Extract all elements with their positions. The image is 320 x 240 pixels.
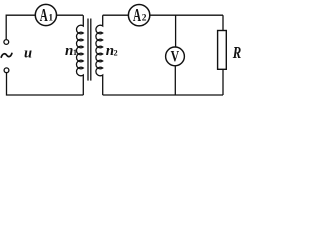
wire right side down to resistor	[222, 15, 224, 30]
wire bottom-left from source to primary	[7, 73, 84, 95]
svg-text:A: A	[133, 5, 141, 25]
wire bottom-right	[103, 94, 223, 96]
resistor R	[218, 31, 227, 70]
terminal upper	[4, 40, 9, 45]
svg-text:1: 1	[73, 48, 77, 57]
wire A2 to right corner	[150, 14, 223, 16]
transformer core line right	[90, 19, 92, 81]
transformer primary coil n1	[77, 15, 84, 95]
svg-text:V: V	[171, 48, 180, 65]
svg-text:2: 2	[142, 14, 147, 24]
svg-text:1: 1	[48, 14, 53, 24]
transformer core line left	[87, 19, 89, 81]
wire resistor to bottom	[222, 69, 224, 95]
ammeter A1	[35, 4, 56, 25]
terminal lower	[4, 68, 9, 73]
svg-text:R: R	[232, 43, 241, 62]
wire top-left from source to A1	[6, 15, 35, 39]
ammeter A2	[128, 5, 149, 26]
voltmeter V	[166, 47, 185, 66]
wire secondary top to A2	[103, 14, 129, 16]
svg-text:2: 2	[114, 48, 118, 57]
wire junction to voltmeter	[175, 15, 177, 47]
svg-text:u: u	[24, 46, 32, 62]
wire voltmeter to bottom	[174, 66, 176, 95]
AC source tilde	[1, 53, 12, 57]
wire A1 to primary	[57, 14, 84, 16]
svg-text:A: A	[40, 5, 48, 25]
transformer secondary coil n2	[96, 15, 103, 95]
